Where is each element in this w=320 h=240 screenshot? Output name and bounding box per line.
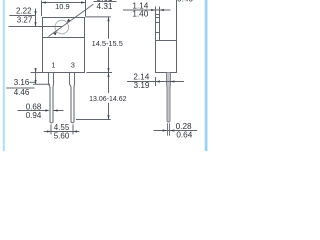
svg-text:1: 1	[51, 60, 55, 69]
svg-text:2.14: 2.14	[133, 72, 149, 81]
svg-text:0.46: 0.46	[177, 0, 193, 3]
svg-text:3.16: 3.16	[14, 78, 30, 87]
svg-text:5.60: 5.60	[54, 132, 70, 141]
svg-text:14.5-15.5: 14.5-15.5	[92, 39, 123, 48]
svg-text:3: 3	[71, 60, 75, 69]
svg-text:13.06-14.62: 13.06-14.62	[89, 96, 126, 103]
svg-text:4.46: 4.46	[14, 88, 30, 97]
svg-text:0.94: 0.94	[26, 111, 42, 120]
svg-text:3.61: 3.61	[97, 0, 113, 3]
svg-text:1.40: 1.40	[132, 10, 148, 19]
svg-text:4.31: 4.31	[97, 2, 113, 11]
svg-text:10.9: 10.9	[55, 2, 70, 11]
svg-text:3.19: 3.19	[134, 81, 150, 90]
svg-text:0.64: 0.64	[176, 131, 192, 140]
svg-text:3.27: 3.27	[17, 16, 33, 25]
svg-text:2.22: 2.22	[16, 7, 32, 16]
